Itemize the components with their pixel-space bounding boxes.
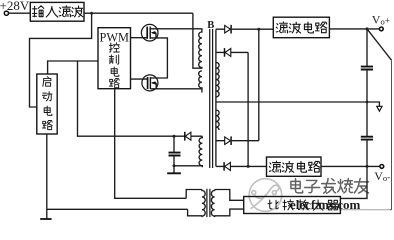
transformer T2 left winding <box>186 190 205 218</box>
node Vo- terminal <box>380 165 384 169</box>
diode D4 negative rectifier lower <box>216 162 267 171</box>
node +28V input terminal <box>4 11 8 15</box>
svg-text:PWM: PWM <box>100 31 130 45</box>
block filter negative 滤波电路 <box>267 157 322 176</box>
wire Q1 source to Q2 drain <box>157 38 167 78</box>
capacitor C2 output bottom <box>340 137 373 199</box>
node junction positive rail <box>257 28 260 31</box>
block comparison amplifier 比较放大器 <box>244 197 341 214</box>
node junction aux bottom <box>173 164 176 167</box>
diode D3 positive rectifier lower <box>216 136 259 145</box>
wire branch down to auxiliary supply line <box>78 61 175 136</box>
transformer T2 right winding <box>211 190 243 218</box>
block startup circuit 启动电路 <box>37 74 57 134</box>
wire D3 output up to positive line <box>258 29 260 141</box>
capacitor C3 auxiliary <box>169 136 181 172</box>
wire startup bottom to ground rail <box>46 134 48 219</box>
wire ground rail to feedback transformer <box>47 208 188 210</box>
node junction 0V mid <box>366 101 369 104</box>
wire D2 output down to negative line <box>247 52 249 166</box>
diode D5 auxiliary rectifier <box>174 132 202 141</box>
wire startup top to PWM supply line <box>48 61 98 74</box>
node junction aux top <box>173 135 176 138</box>
diode D2 negative rectifier upper <box>216 48 248 57</box>
wire +28V branch down-left to startup circuit <box>30 13 92 107</box>
block filter positive 滤波电路 <box>273 17 329 38</box>
transformer T2 core <box>207 189 210 217</box>
transformer T1 primary winding upper <box>199 31 202 69</box>
transformer T1 auxiliary winding <box>199 136 202 167</box>
wire input filter output to primary center-tap drop <box>84 12 193 14</box>
wire PWM feedback pin down to transformer T2 <box>115 89 187 199</box>
wire filter positive output to Vo+ <box>329 28 379 30</box>
svg-text:+28V: +28V <box>0 0 30 13</box>
node junction Vo- sense <box>366 165 369 168</box>
transformer T1 core <box>210 29 213 168</box>
block PWM control PWM控制电路 <box>98 28 131 89</box>
wire +28V to primary center tap <box>193 13 202 68</box>
ground symbol G2 <box>167 172 181 174</box>
node junction negative rail <box>247 165 250 168</box>
transformer T1 secondary winding lower <box>216 110 219 130</box>
wire +28V terminal to input filter <box>9 12 31 14</box>
watermark underline <box>300 209 390 211</box>
wire aux winding bottom <box>174 165 202 167</box>
node 0V arrow terminal <box>377 106 382 111</box>
transformer T1 secondary winding upper <box>216 62 219 96</box>
node junction A <box>90 12 93 15</box>
block input filter 输入滤波 <box>30 2 84 21</box>
transistor Q2 MOSFET bottom <box>142 75 158 91</box>
wire filter negative output to Vo- <box>321 165 380 167</box>
capacitor C1 output top <box>361 29 373 136</box>
node Vo+ terminal <box>379 27 383 31</box>
watermark logo circle <box>249 179 282 212</box>
wire Q1 drain to primary top <box>157 29 202 31</box>
wire PWM gate drive bottom <box>131 78 148 80</box>
wire feedback right rail <box>340 60 391 209</box>
transistor Q1 MOSFET top <box>141 24 158 41</box>
ground symbol G1 <box>40 218 51 220</box>
wire Q2 source to primary bottom <box>157 88 202 89</box>
transformer T1 primary winding lower <box>199 71 202 93</box>
transformer T1 secondary winding line <box>215 29 217 166</box>
wire secondary center tap 0V <box>216 102 380 106</box>
watermark text 电子发烧友 <box>291 178 369 193</box>
node junction Vo+ sense <box>366 27 369 30</box>
wire Vo+ feedback diagonal <box>367 29 392 60</box>
wire PWM gate drive top <box>131 37 148 39</box>
diode D1 positive rectifier top <box>216 25 273 34</box>
